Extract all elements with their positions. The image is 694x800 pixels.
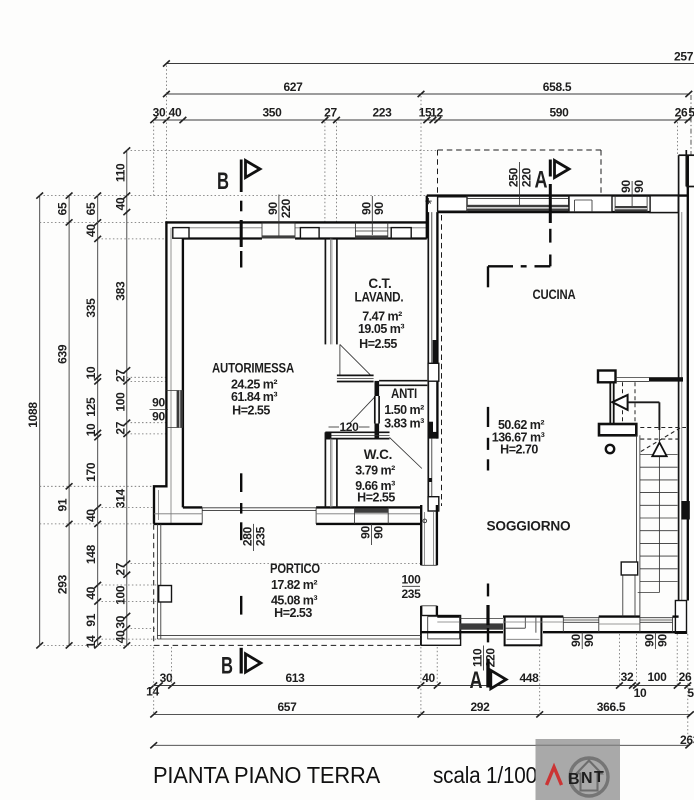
left dim column 2: 65 639 91 293	[56, 193, 73, 649]
watermark logo: red caret	[547, 767, 562, 785]
stair: flight side walls	[623, 435, 640, 616]
watermark logo: gray box	[536, 739, 621, 800]
svg-text:10: 10	[634, 686, 647, 700]
svg-text:10: 10	[84, 423, 98, 436]
svg-text:40: 40	[84, 224, 98, 237]
svg-text:61.84 m³: 61.84 m³	[231, 390, 277, 404]
svg-text:590: 590	[549, 106, 569, 120]
svg-text:N: N	[581, 770, 593, 787]
svg-text:100: 100	[113, 585, 127, 605]
portico edge double line, south	[157, 636, 421, 639]
wall: garage west inner face	[182, 239, 184, 508]
svg-text:40: 40	[169, 106, 182, 120]
svg-text:263: 263	[680, 733, 694, 747]
svg-text:A: A	[535, 167, 548, 194]
svg-text:H=2.53: H=2.53	[274, 606, 312, 620]
stair: newel box top	[598, 371, 616, 383]
svg-text:100: 100	[401, 572, 421, 586]
svg-text:220: 220	[519, 167, 533, 187]
svg-text:H=2.55: H=2.55	[232, 404, 270, 418]
section line A-A dashes	[488, 160, 550, 688]
svg-text:40: 40	[84, 586, 98, 599]
door D2: garage to CT room, leaf and swing	[340, 344, 371, 375]
svg-text:110: 110	[471, 648, 485, 667]
svg-text:1.50 m²: 1.50 m²	[384, 403, 424, 417]
svg-text:14: 14	[146, 685, 159, 699]
label 90/90 window W7	[642, 632, 669, 649]
wall: black bar in east wall beside CT	[433, 340, 438, 363]
pillar box east wall at CT south corner	[428, 363, 439, 381]
dashed balcony outline above kitchen	[438, 150, 602, 195]
stair: wall stub below newel	[609, 382, 611, 424]
door D1 90x220 in garage north wall	[262, 222, 295, 238]
svg-text:CUCINA: CUCINA	[533, 287, 576, 302]
svg-text:5: 5	[687, 686, 694, 700]
wall: soggiorno west cavity line	[424, 512, 426, 565]
room text AUTORIMESSA	[212, 361, 294, 418]
garage door threshold 280	[202, 508, 316, 511]
svg-text:PIANTA PIANO TERRA: PIANTA PIANO TERRA	[153, 762, 381, 788]
window W4 250x220 french door in cucina north wall	[467, 196, 569, 213]
left dim column 4: 110 40 383 27 100 27 314 27 100 30 40	[113, 147, 130, 648]
svg-text:250: 250	[507, 167, 521, 187]
label 90/90 window W2	[150, 396, 169, 424]
window W2 90x90 in garage west wall	[166, 391, 183, 428]
svg-text:220: 220	[483, 648, 497, 668]
svg-text:SOGGIORNO: SOGGIORNO	[487, 519, 571, 534]
label 110/220 door D6	[471, 646, 498, 671]
stair: dashed flight above cut	[623, 382, 687, 451]
svg-text:90: 90	[655, 634, 669, 647]
pillar at garage NW corner	[173, 228, 189, 239]
svg-text:90: 90	[372, 202, 386, 215]
wall: WC north	[325, 432, 389, 438]
svg-text:H=2.55: H=2.55	[357, 491, 395, 505]
svg-text:90: 90	[619, 180, 633, 193]
left dim column 1: 1088	[26, 193, 43, 649]
door D5 100x235 portico to soggiorno, jambs	[421, 565, 437, 606]
door hinge dot on WC east wall	[428, 478, 432, 482]
wall: soggiorno south inner face	[437, 615, 459, 617]
dotted extension lines, left	[40, 195, 427, 197]
svg-text:658.5: 658.5	[543, 80, 572, 94]
svg-text:10: 10	[84, 366, 98, 379]
door D4: WC door swing	[390, 437, 422, 468]
room text C.T. LAVAND.	[355, 276, 405, 351]
svg-text:257: 257	[674, 50, 694, 64]
black notch east of ANTI south corner	[428, 422, 433, 439]
svg-text:220: 220	[279, 198, 293, 218]
svg-text:223: 223	[372, 106, 392, 120]
svg-text:H=2.55: H=2.55	[359, 337, 397, 351]
label 90/90 window W3	[359, 524, 386, 545]
black cap WC north wall west end	[325, 432, 331, 439]
wall: building east outer face	[687, 155, 689, 600]
svg-text:90: 90	[152, 410, 165, 424]
pillar box east wall at WC south corner	[428, 497, 439, 511]
svg-text:90: 90	[642, 634, 656, 647]
svg-text:3.79 m²: 3.79 m²	[355, 464, 395, 478]
watermark logo: circular emblem with house	[570, 758, 608, 796]
wall: black cap east end of WC north wall	[433, 432, 438, 439]
wall: south wall cavity lines	[154, 513, 202, 515]
svg-text:91: 91	[56, 498, 70, 511]
svg-text:27: 27	[113, 421, 127, 434]
svg-text:65: 65	[56, 202, 70, 215]
svg-text:350: 350	[262, 106, 282, 120]
wall piece above cucina NE corner	[685, 150, 687, 187]
stair: upper flight arrow	[612, 395, 659, 430]
label 90/90 window W6	[569, 632, 596, 649]
svg-text:90: 90	[569, 634, 583, 647]
svg-text:90: 90	[632, 180, 646, 193]
svg-text:657: 657	[277, 700, 297, 714]
svg-text:27: 27	[113, 562, 127, 575]
window W1 90x90 in CT north wall	[355, 222, 387, 238]
wall: cucina north inner face	[438, 211, 679, 213]
window W3 90x90 in WC south wall	[355, 507, 389, 524]
label 280/235 garage door	[241, 524, 268, 551]
svg-text:19.05 m³: 19.05 m³	[358, 322, 404, 336]
dashed floor-above overhang over portico	[154, 487, 437, 645]
svg-text:32: 32	[621, 670, 634, 684]
wall: soggiorno west, outer face	[420, 505, 422, 565]
dimension row top-2: 627	[163, 80, 692, 97]
svg-text:30: 30	[160, 671, 173, 685]
svg-text:90: 90	[359, 526, 373, 539]
door D3: hall door leaf and swing	[350, 397, 375, 423]
svg-text:639: 639	[56, 344, 70, 364]
svg-text:100: 100	[647, 670, 667, 684]
section marker B top	[217, 161, 260, 196]
room text soggiorno area values	[492, 418, 545, 457]
pillar in garage north wall	[300, 228, 319, 239]
wall: black jamb SW of ANTI	[375, 424, 380, 439]
wall: garage west cavity line	[170, 228, 172, 524]
svg-text:366.5: 366.5	[597, 700, 626, 714]
stair: thin wall edge to right of newel	[616, 377, 650, 379]
svg-text:H=2.70: H=2.70	[500, 443, 538, 457]
wall: SE corner block	[675, 601, 686, 634]
wall: garage north, cavity thin line	[189, 227, 262, 229]
thin inner lines of south wall piers	[437, 622, 640, 624]
wall: soggiorno south outer face	[421, 631, 503, 633]
dimension row bottom-3: 263	[150, 733, 694, 748]
small circle on soggiorno west wall	[423, 519, 427, 523]
svg-text:LAVAND.: LAVAND.	[355, 290, 404, 305]
svg-text:335: 335	[84, 298, 98, 318]
svg-text:40: 40	[422, 671, 435, 685]
svg-text:14: 14	[84, 635, 98, 648]
svg-text:170: 170	[84, 462, 98, 482]
svg-text:110: 110	[113, 163, 127, 182]
wall: west jog between garage wall and cucina wall	[426, 196, 428, 239]
svg-text:613: 613	[285, 671, 305, 685]
dashed floor-above edge east of WC	[441, 215, 443, 506]
outside step block at door D6	[505, 617, 542, 646]
pillar in CT north wall	[391, 228, 411, 239]
svg-text:12: 12	[430, 106, 443, 120]
wall: ANTI west threshold	[375, 396, 379, 424]
portico pillar	[159, 586, 172, 603]
pillar box cucina north wall middle	[569, 196, 612, 212]
svg-text:scala 1/100: scala 1/100	[433, 762, 537, 788]
wall: building east inner face	[678, 155, 680, 616]
wall: south wall garage+wc outer face	[154, 523, 202, 525]
wall: south wall end jambs	[201, 507, 203, 524]
svg-text:90: 90	[371, 526, 385, 539]
svg-text:90: 90	[359, 202, 373, 215]
svg-text:280: 280	[241, 526, 255, 546]
pillar box cucina north wall west	[438, 197, 467, 211]
svg-text:27: 27	[113, 369, 127, 382]
label 90/90 window W1	[359, 196, 386, 235]
window W5 90x90 in cucina north wall	[615, 196, 647, 213]
room text ANTI	[384, 386, 424, 431]
svg-text:T: T	[594, 769, 604, 786]
section marker A bottom	[470, 667, 507, 694]
svg-text:B: B	[217, 168, 229, 195]
dimension row top-3: 30 40 350 27 223 15 12 590 26 5	[150, 106, 694, 124]
stair: treads	[640, 455, 678, 582]
svg-text:292: 292	[470, 700, 490, 714]
label 100/235 door D5	[401, 572, 421, 601]
stair: walking line	[638, 430, 660, 593]
svg-text:65: 65	[84, 202, 98, 215]
stair: up arrow	[652, 443, 666, 457]
pillar box cucina north wall east corner	[650, 196, 678, 213]
svg-text:90: 90	[582, 634, 596, 647]
label 250/220 window W4	[507, 162, 534, 205]
black block in east wall	[681, 501, 690, 520]
wall: garage west outer face	[154, 221, 166, 524]
svg-text:448: 448	[519, 671, 539, 685]
svg-text:90: 90	[152, 396, 165, 410]
watermark logo: BNT letters	[568, 769, 604, 788]
stair: landing wall band	[599, 424, 636, 435]
newel post circle	[606, 445, 614, 453]
svg-text:PORTICO: PORTICO	[270, 561, 320, 576]
wall: CT/ANTI/WC east (x 427-438)	[428, 212, 437, 507]
svg-text:ANTI: ANTI	[391, 386, 417, 401]
left dim column 3: 65 40 335 10 125 10 170 40 148 40 91 14	[84, 193, 101, 649]
svg-text:125: 125	[84, 397, 98, 417]
wall: south wall inner face	[183, 506, 202, 508]
survey cross mark at cucina west corner	[425, 198, 431, 204]
wall: black jamb west of ANTI	[375, 381, 380, 396]
window W6 90x90 in soggiorno south wall	[563, 617, 599, 633]
room text PORTICO	[270, 561, 320, 620]
svg-text:235: 235	[253, 526, 267, 546]
section line B-B dashes	[240, 160, 243, 674]
section marker A top	[535, 161, 570, 194]
dimension row bottom-1: 14 30 613 40 448 32 10 100 26 5	[146, 670, 694, 700]
dimension row bottom-2: 657 292 366.5	[150, 700, 694, 718]
svg-text:40: 40	[113, 630, 127, 643]
svg-text:26: 26	[679, 670, 692, 684]
svg-text:B: B	[568, 771, 580, 788]
svg-text:90: 90	[266, 202, 280, 215]
svg-text:148: 148	[84, 544, 98, 564]
svg-text:AUTORIMESSA: AUTORIMESSA	[212, 361, 294, 376]
wall: cucina north outer face	[427, 194, 689, 196]
wall: soggiorno west, inner face	[436, 505, 438, 565]
dotted extension lines, top	[165, 66, 167, 223]
label 90/220 door D1	[266, 195, 293, 237]
svg-text:293: 293	[56, 574, 70, 594]
stair: wall band at top of flight	[649, 377, 683, 381]
window W7 90x90 in soggiorno south wall	[640, 617, 673, 633]
wall: ANTI north	[379, 381, 427, 386]
dotted extension lines, bottom	[153, 647, 155, 714]
svg-text:627: 627	[283, 80, 303, 94]
wall: garage north, inner face	[183, 237, 262, 239]
svg-text:1088: 1088	[26, 402, 40, 428]
svg-text:17.82 m²: 17.82 m²	[271, 578, 317, 592]
svg-text:383: 383	[113, 281, 127, 301]
label 120 hall width	[329, 420, 370, 434]
svg-text:3.83 m³: 3.83 m³	[384, 417, 424, 431]
portico edge double line, west	[157, 524, 160, 639]
wall: garage/CT east partition	[325, 239, 337, 345]
label 90/90 window W5	[619, 180, 646, 206]
svg-text:30: 30	[113, 615, 127, 628]
svg-text:27: 27	[324, 106, 337, 120]
svg-text:91: 91	[84, 613, 98, 626]
svg-text:26: 26	[675, 106, 688, 120]
svg-text:W.C.: W.C.	[364, 447, 392, 462]
svg-text:314: 314	[113, 489, 127, 509]
svg-text:B: B	[221, 653, 233, 680]
wall: garage north, outer face	[165, 221, 426, 223]
door D6 110x220 french door in south wall	[460, 619, 504, 630]
room text W.C.	[355, 447, 395, 505]
wall: CT room south	[337, 375, 374, 381]
stair: bottom newel block	[621, 562, 638, 575]
svg-text:30: 30	[153, 106, 166, 120]
wall: east wall top cap	[679, 154, 694, 156]
dimension row top-1 total 257	[163, 50, 694, 67]
svg-text:A: A	[470, 667, 483, 694]
svg-text:40: 40	[84, 509, 98, 522]
section marker B bottom	[221, 653, 261, 680]
svg-text:100: 100	[113, 392, 127, 412]
svg-text:40: 40	[113, 197, 127, 210]
wall: SW corner step block	[421, 616, 460, 646]
svg-text:235: 235	[401, 587, 421, 601]
wall: WC west	[325, 432, 337, 507]
